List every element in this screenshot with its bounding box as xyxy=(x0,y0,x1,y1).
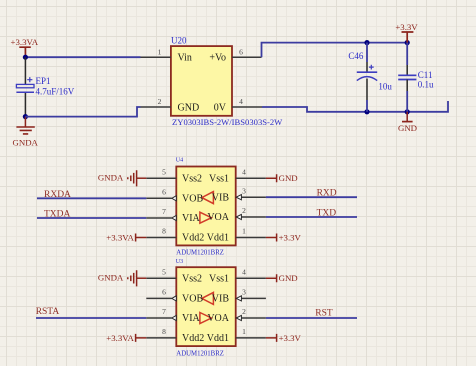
svg-text:5: 5 xyxy=(162,267,166,276)
U4 pin 3 VIB xyxy=(212,186,266,203)
component U3 body xyxy=(176,259,236,357)
U4 pin 7 VIA xyxy=(146,207,200,224)
svg-text:6: 6 xyxy=(162,288,166,297)
svg-text:ADUM1201BRZ: ADUM1201BRZ xyxy=(176,249,224,256)
svg-text:GNDA: GNDA xyxy=(98,173,124,183)
svg-text:VIA: VIA xyxy=(182,313,201,324)
power port +3.3VA (top left) xyxy=(11,37,39,57)
wire U4 pin 3 RXD xyxy=(266,196,357,198)
wire U20 0V to GND rail xyxy=(262,101,448,112)
svg-text:+3.3V: +3.3V xyxy=(279,333,302,343)
power port +3.3VA at U3 pin 8 xyxy=(106,333,146,343)
power port GND at U4 pin 4 xyxy=(266,173,298,183)
svg-text:RXDA: RXDA xyxy=(44,190,71,200)
wire U3 pin 2 RST xyxy=(266,317,357,319)
svg-text:6: 6 xyxy=(239,47,243,56)
svg-text:ADUM1201BRZ: ADUM1201BRZ xyxy=(176,350,224,357)
svg-text:+3.3VA: +3.3VA xyxy=(11,37,39,47)
svg-text:TXDA: TXDA xyxy=(44,210,71,220)
U4 pin 2 VOA xyxy=(207,206,266,223)
svg-text:Vss2: Vss2 xyxy=(182,173,202,184)
svg-text:VIB: VIB xyxy=(212,294,230,305)
svg-text:U4: U4 xyxy=(176,157,183,163)
svg-text:+3.3V: +3.3V xyxy=(279,233,302,243)
svg-text:GND: GND xyxy=(178,102,200,113)
U4 pin 4 Vss1 xyxy=(209,167,266,184)
wire RXDA to U4 pin 6 xyxy=(37,197,146,199)
svg-text:10u: 10u xyxy=(378,82,392,92)
svg-text:8: 8 xyxy=(162,327,166,336)
svg-text:VIB: VIB xyxy=(212,192,230,203)
svg-text:2: 2 xyxy=(158,97,162,106)
wire U20 +Vo to +3.3V rail xyxy=(262,43,408,58)
U3 pin 6 VOB (stub) xyxy=(146,288,203,305)
svg-text:GND: GND xyxy=(279,173,298,183)
svg-text:VOB: VOB xyxy=(182,294,203,305)
U3 buffer triangle VIA (points right) xyxy=(200,313,212,324)
svg-text:0.1u: 0.1u xyxy=(418,80,434,90)
U4 buffer triangle VOB (points left) xyxy=(202,192,214,204)
svg-text:6: 6 xyxy=(162,187,166,196)
capacitor EP1 xyxy=(16,57,74,116)
svg-text:Vdd2: Vdd2 xyxy=(182,333,204,344)
U4 pin 8 Vdd2 xyxy=(146,227,204,244)
ground GND (bottom right, bar style) xyxy=(398,112,417,133)
svg-text:RSTA: RSTA xyxy=(36,307,60,317)
svg-text:2: 2 xyxy=(242,307,246,316)
capacitor C46 xyxy=(348,43,392,112)
svg-text:4.7uF/16V: 4.7uF/16V xyxy=(36,87,75,97)
U3 buffer triangle VOB (points left) xyxy=(202,292,214,304)
svg-text:Vss2: Vss2 xyxy=(182,273,202,284)
junction C46 top xyxy=(364,40,369,45)
U20 pin 6 +Vo xyxy=(209,47,261,63)
svg-text:4: 4 xyxy=(242,267,246,276)
svg-text:VIA: VIA xyxy=(182,213,201,224)
svg-text:1: 1 xyxy=(158,47,162,56)
svg-text:+3.3VA: +3.3VA xyxy=(106,333,134,343)
power port +3.3VA at U4 pin 8 xyxy=(106,233,146,243)
wire GNDA rail to U20 pin 2 xyxy=(25,107,140,117)
U3 pin 4 Vss1 xyxy=(209,267,266,284)
svg-text:5: 5 xyxy=(162,167,166,176)
svg-text:EP1: EP1 xyxy=(36,76,51,86)
svg-text:Vdd1: Vdd1 xyxy=(207,333,229,344)
power port +3.3V (top right) xyxy=(395,22,418,43)
power port +3.3V at U3 pin 1 xyxy=(266,333,302,343)
ground GNDA at U4 pin 5 (earth, rotated) xyxy=(98,170,146,186)
svg-text:7: 7 xyxy=(162,207,166,216)
svg-text:1: 1 xyxy=(242,227,246,236)
svg-text:GND: GND xyxy=(398,123,417,133)
U3 pin 8 Vdd2 xyxy=(146,327,204,344)
junction GND node xyxy=(405,109,410,114)
ground GNDA (bottom left, earth style) xyxy=(12,117,38,148)
svg-text:8: 8 xyxy=(162,227,166,236)
power port +3.3V at U4 pin 1 xyxy=(266,233,302,243)
U3 pin 2 VOA xyxy=(207,307,266,324)
svg-text:U3: U3 xyxy=(176,259,183,265)
svg-text:VOB: VOB xyxy=(182,194,203,205)
svg-text:RXD: RXD xyxy=(317,189,337,199)
svg-text:RST: RST xyxy=(315,309,333,319)
svg-text:C46: C46 xyxy=(348,51,364,61)
svg-text:4: 4 xyxy=(239,97,243,106)
U3 pin 7 VIA xyxy=(146,307,200,324)
junction +3.3V node xyxy=(405,40,410,45)
svg-text:Vss1: Vss1 xyxy=(209,273,229,284)
wire RSTA to U3 pin 7 xyxy=(36,317,146,319)
wire TXDA to U4 pin 7 xyxy=(37,217,146,219)
svg-text:VOA: VOA xyxy=(207,313,229,324)
power port GND at U3 pin 4 xyxy=(266,273,298,283)
junction at +3.3VA node xyxy=(23,55,28,60)
svg-text:Vdd2: Vdd2 xyxy=(182,233,204,244)
svg-text:3: 3 xyxy=(242,288,246,297)
svg-text:+3.3V: +3.3V xyxy=(395,22,418,32)
junction at GNDA node xyxy=(23,114,28,119)
U20 pin 2 GND xyxy=(141,97,200,113)
svg-text:Vdd1: Vdd1 xyxy=(207,233,229,244)
U20 pin 1 Vin xyxy=(141,47,192,63)
svg-text:+3.3VA: +3.3VA xyxy=(106,233,134,243)
svg-text:0V: 0V xyxy=(214,102,227,113)
U3 pin 1 Vdd1 xyxy=(207,327,266,344)
U4 pin 5 Vss2 xyxy=(146,167,202,184)
U4 buffer triangle VIA (points right) xyxy=(200,212,212,223)
svg-text:1: 1 xyxy=(242,327,246,336)
svg-text:7: 7 xyxy=(162,307,166,316)
U4 pin 6 VOB xyxy=(146,187,203,204)
svg-text:Vss1: Vss1 xyxy=(209,173,229,184)
capacitor C11 xyxy=(398,43,434,112)
U3 pin 3 VIB (stub) xyxy=(212,288,266,305)
component U4 body xyxy=(176,157,236,256)
ground GNDA at U3 pin 5 (earth, rotated) xyxy=(98,270,146,286)
svg-text:C11: C11 xyxy=(418,70,433,80)
wire +3.3VA to U20 pin 1 xyxy=(25,56,140,58)
svg-text:4: 4 xyxy=(242,167,246,176)
U4 pin 1 Vdd1 xyxy=(207,227,266,244)
svg-text:GND: GND xyxy=(279,273,298,283)
wire U4 pin 2 TXD xyxy=(266,216,357,218)
svg-text:ZY0303IBS-2W/IBS0303S-2W: ZY0303IBS-2W/IBS0303S-2W xyxy=(172,117,283,127)
svg-text:VOA: VOA xyxy=(207,212,229,223)
U20 pin 4 0V xyxy=(214,97,262,113)
svg-text:2: 2 xyxy=(242,206,246,215)
svg-text:U20: U20 xyxy=(171,36,187,46)
U3 pin 5 Vss2 xyxy=(146,267,202,284)
svg-text:GNDA: GNDA xyxy=(98,273,124,283)
svg-text:+Vo: +Vo xyxy=(209,53,226,64)
junction C46 bottom xyxy=(364,109,369,114)
svg-text:GNDA: GNDA xyxy=(12,138,38,148)
svg-text:3: 3 xyxy=(242,186,246,195)
svg-text:TXD: TXD xyxy=(317,209,337,219)
component U20 body xyxy=(171,36,283,127)
svg-text:Vin: Vin xyxy=(178,53,192,64)
